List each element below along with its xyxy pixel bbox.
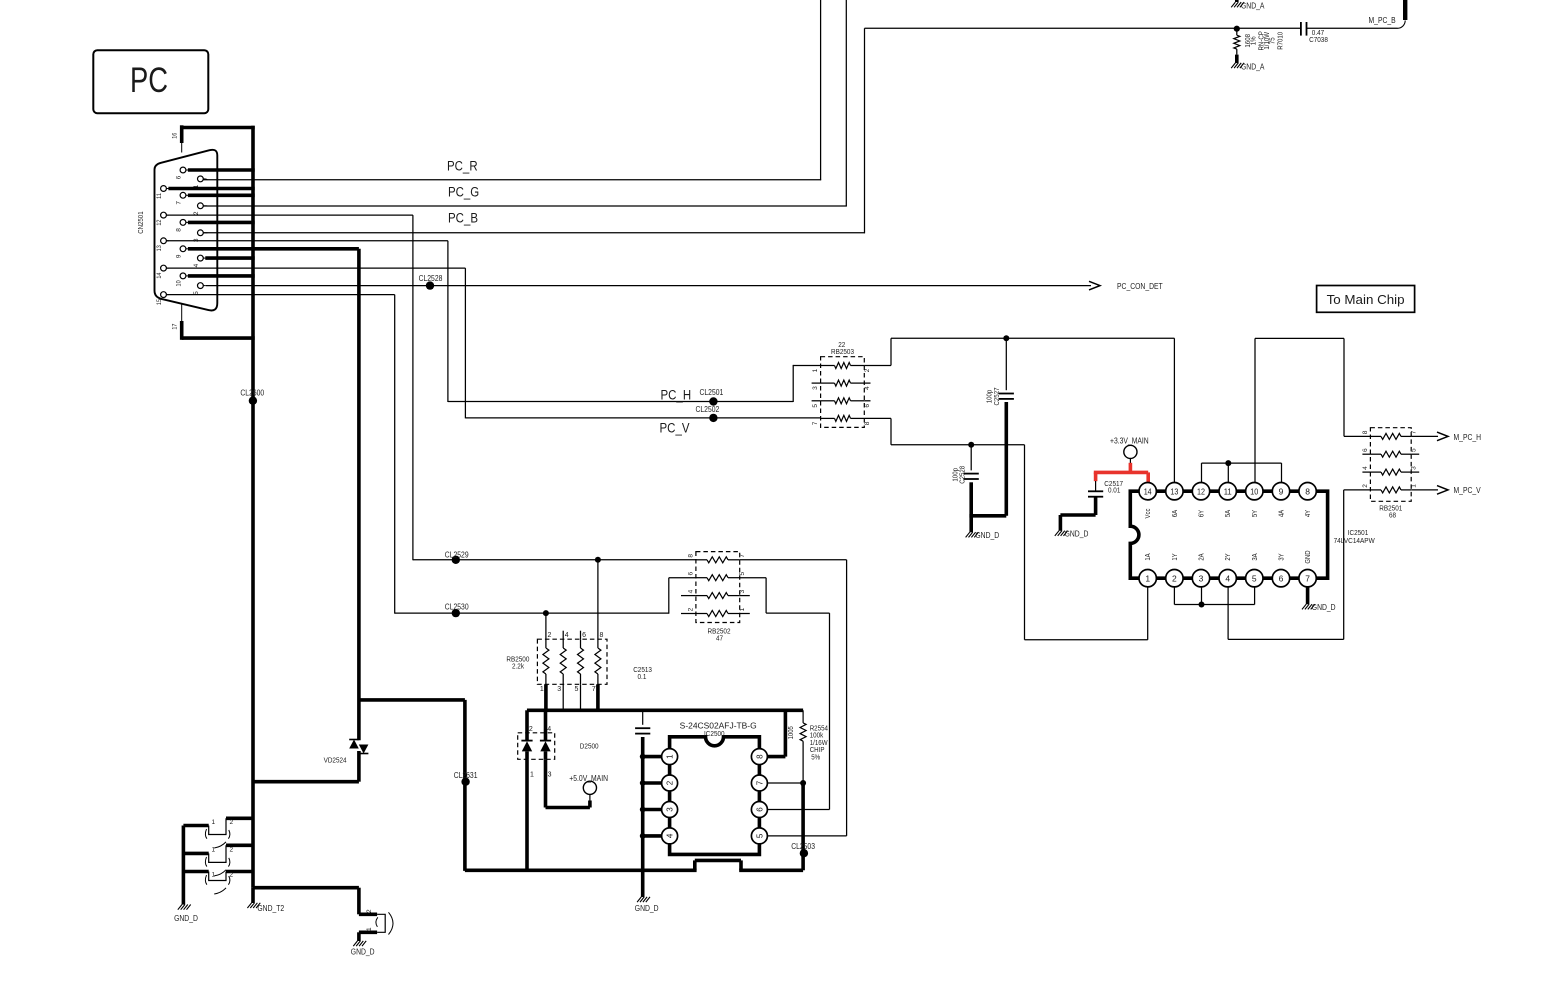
svg-text:14: 14: [156, 272, 163, 278]
svg-text:3: 3: [739, 589, 746, 593]
svg-text:11: 11: [156, 193, 163, 199]
svg-text:4Y: 4Y: [1305, 510, 1312, 518]
node CL2530: [445, 602, 469, 617]
svg-text:CL2503: CL2503: [791, 842, 815, 851]
pin 12 of CN2501: [156, 212, 169, 225]
node junction C2528: [968, 442, 974, 448]
svg-text:CL2530: CL2530: [445, 602, 469, 611]
svg-text:7: 7: [755, 780, 764, 785]
wire C2527 to ground: [969, 402, 1006, 516]
svg-text:4: 4: [665, 833, 674, 838]
svg-text:5: 5: [739, 572, 746, 576]
wire IC2500 pin7 to R2554: [767, 780, 806, 786]
svg-text:GND_D: GND_D: [1312, 603, 1336, 612]
wire D2500 pin1 to ground bus: [525, 759, 529, 870]
ground GND_D below C2517: [1055, 530, 1089, 539]
svg-text:11: 11: [1224, 486, 1232, 496]
node CL2502: [696, 405, 720, 422]
resistor network RB2501: [1362, 428, 1419, 520]
svg-text:CL2529: CL2529: [445, 550, 469, 559]
capacitor C2517: [1088, 479, 1123, 497]
svg-text:74LVC14APW: 74LVC14APW: [1334, 536, 1376, 545]
svg-text:C2528: C2528: [958, 466, 967, 484]
pin 5 of CN2501: [193, 283, 206, 295]
svg-text:4A: 4A: [1279, 510, 1286, 518]
wire pin3 tail: [206, 232, 208, 234]
svg-text:15: 15: [156, 299, 163, 305]
node CL2528: [419, 274, 443, 290]
wire RB2503 pin8 to PC_V path: [864, 418, 1024, 444]
svg-text:2: 2: [230, 847, 234, 854]
svg-text:5: 5: [755, 833, 764, 838]
label IC2501: [1334, 528, 1376, 545]
svg-text:4: 4: [687, 589, 694, 593]
svg-text:2: 2: [864, 368, 871, 372]
svg-text:1: 1: [212, 847, 216, 854]
svg-text:7: 7: [1305, 573, 1310, 583]
node CL2631: [454, 771, 478, 786]
ground GND_D at IC2501 pin7: [1302, 603, 1336, 612]
link FB2 to ground: [183, 845, 253, 876]
svg-text:2.2k: 2.2k: [512, 662, 524, 671]
wire pin15 to CL2530 line: [166, 295, 394, 614]
wire pin9 drop: [357, 249, 361, 740]
svg-text:6A: 6A: [1172, 510, 1179, 518]
svg-text:2: 2: [665, 780, 674, 785]
node PC_B label: [448, 211, 478, 226]
svg-text:To Main Chip: To Main Chip: [1327, 292, 1405, 307]
diode D2500: [518, 710, 599, 778]
svg-text:VD2524: VD2524: [324, 756, 347, 765]
resistor network RB2502: [681, 552, 750, 643]
svg-text:3: 3: [193, 238, 200, 242]
pin 3 of CN2501: [193, 230, 206, 242]
svg-text:2Y: 2Y: [1225, 553, 1232, 561]
svg-text:GND_T2: GND_T2: [257, 904, 284, 913]
wire left ground rail: [182, 826, 186, 905]
wire CL2529 line: [413, 559, 696, 561]
wire pin5 PC_CON_DET: [206, 285, 1091, 287]
wire row1 left stub RB2501: [1344, 435, 1370, 437]
svg-text:8: 8: [687, 554, 694, 558]
pin 2 of CN2501: [193, 203, 206, 215]
svg-text:12: 12: [156, 219, 163, 225]
ground GND_D left rail: [174, 905, 198, 923]
node M_PC_B label: [1369, 16, 1396, 25]
ground GND_D below IC2500: [635, 897, 659, 913]
svg-text:GND: GND: [1305, 550, 1312, 563]
svg-text:3: 3: [557, 686, 561, 693]
diode VD2524: [324, 740, 369, 765]
wire PC_H riser to RB2503: [793, 365, 820, 402]
svg-text:4: 4: [565, 632, 569, 639]
svg-text:GND_D: GND_D: [351, 947, 375, 956]
svg-text:CL2631: CL2631: [454, 771, 478, 780]
svg-text:6: 6: [1362, 448, 1369, 452]
wire pin9 to CL2631: [359, 700, 465, 871]
svg-text:GND_D: GND_D: [635, 904, 659, 913]
wire IC2501 pin13 riser: [1173, 338, 1175, 482]
pin 17 of CN2501: [171, 304, 181, 340]
svg-text:2: 2: [529, 726, 533, 733]
svg-text:CL2600: CL2600: [240, 389, 264, 398]
node CL2503: [791, 842, 815, 858]
pin names of IC2501: [1145, 508, 1312, 563]
svg-text:6: 6: [582, 632, 586, 639]
svg-text:GND_A: GND_A: [1241, 2, 1265, 11]
resistor R7010: [1234, 29, 1240, 63]
svg-text:12: 12: [1197, 486, 1205, 496]
svg-text:68: 68: [1389, 510, 1396, 519]
resistor R2554: [788, 710, 828, 783]
wire IC2501 pin4 to RB2501: [1228, 490, 1344, 640]
capacitor C2528: [950, 445, 978, 484]
svg-text:+3.3V_MAIN: +3.3V_MAIN: [1110, 436, 1149, 445]
wire row4 left stub RB2501: [1344, 489, 1371, 491]
svg-text:1: 1: [212, 872, 216, 879]
svg-text:D2500: D2500: [580, 741, 599, 750]
ground GND_D below C2528: [966, 531, 1000, 540]
svg-text:PC_V: PC_V: [660, 421, 690, 436]
svg-text:1: 1: [540, 686, 544, 693]
svg-text:3: 3: [1411, 466, 1418, 470]
node CL2600: [240, 389, 264, 405]
pins 1-7 of IC2501: [1139, 570, 1316, 587]
connector CN2501 shell: [155, 150, 218, 311]
svg-text:CL2528: CL2528: [419, 274, 443, 283]
svg-text:17: 17: [171, 323, 178, 329]
svg-text:0.01: 0.01: [1108, 485, 1120, 494]
wire pin12 to CL2529 line: [166, 215, 413, 560]
svg-text:2A: 2A: [1199, 553, 1206, 561]
svg-text:PC_G: PC_G: [448, 185, 479, 200]
svg-text:1005: 1005: [788, 726, 795, 739]
svg-text:GND_D: GND_D: [975, 531, 999, 540]
svg-text:6: 6: [687, 572, 694, 576]
svg-text:8: 8: [755, 754, 764, 759]
wire IC2501 pin7 ground: [1306, 587, 1310, 604]
svg-text:1Y: 1Y: [1172, 553, 1179, 561]
wire PC_R net riser: [203, 0, 821, 180]
pin 16 of CN2501: [171, 125, 181, 152]
svg-text:M_PC_V: M_PC_V: [1454, 486, 1482, 495]
svg-text:7: 7: [592, 686, 596, 693]
svg-text:Vcc: Vcc: [1145, 508, 1152, 518]
capacitor C2513: [633, 665, 652, 734]
wire shield bus: [251, 126, 255, 888]
svg-text:2: 2: [230, 872, 234, 879]
svg-text:5: 5: [1252, 573, 1257, 583]
svg-text:GND_D: GND_D: [1065, 530, 1089, 539]
svg-text:3: 3: [548, 772, 552, 779]
svg-text:1: 1: [1145, 573, 1150, 583]
svg-text:1: 1: [1411, 484, 1418, 488]
wires IC2500 pins1-4 to ground: [640, 754, 662, 839]
svg-text:5: 5: [575, 686, 579, 693]
wire pin16 to shield bus: [182, 126, 255, 130]
svg-text:5Y: 5Y: [1252, 510, 1259, 518]
svg-text:3Y: 3Y: [1279, 553, 1286, 561]
svg-text:7: 7: [1411, 430, 1418, 434]
svg-text:4: 4: [1362, 466, 1369, 470]
svg-text:8: 8: [1362, 430, 1369, 434]
pin 6 of CN2501: [175, 167, 254, 179]
op-amp U1 IC2501 body: [1130, 491, 1327, 578]
wire pin13 to PC_H: [166, 241, 448, 402]
svg-text:GND_D: GND_D: [174, 914, 198, 923]
capacitor C7038: [1301, 22, 1328, 44]
svg-text:2: 2: [230, 819, 234, 826]
node PC_CON_DET arrow: [1089, 281, 1163, 291]
svg-text:CL2502: CL2502: [696, 405, 720, 414]
svg-text:3: 3: [665, 807, 674, 812]
wire VD2524 lower: [253, 751, 359, 782]
svg-text:4: 4: [1225, 573, 1230, 583]
svg-text:M_PC_H: M_PC_H: [1454, 433, 1482, 442]
pin 15 of CN2501: [156, 292, 169, 305]
svg-text:R7010: R7010: [1276, 32, 1285, 50]
svg-text:7: 7: [175, 201, 182, 205]
svg-text:2: 2: [1362, 484, 1369, 488]
svg-text:9: 9: [175, 254, 182, 258]
svg-text:3A: 3A: [1252, 553, 1259, 561]
svg-text:C7038: C7038: [1309, 35, 1328, 44]
svg-text:4: 4: [193, 263, 200, 267]
node CL2529: [445, 550, 469, 564]
wire PC_V to IC pin1: [1025, 445, 1148, 640]
wire RB2500 pin7 to 5V bus: [596, 684, 600, 710]
wire IC2501 pin12-11-9 bracket: [1202, 460, 1282, 482]
ground GND_A below R7010: [1231, 63, 1265, 72]
svg-text:14: 14: [1144, 486, 1152, 496]
wire C2513 to ground: [641, 737, 645, 897]
svg-text:6: 6: [175, 175, 182, 179]
node junction at R7010: [1234, 26, 1240, 32]
svg-text:2: 2: [548, 632, 552, 639]
wire RB2500 pin3 to 5V bus: [562, 684, 564, 710]
svg-text:2: 2: [366, 909, 373, 913]
pins 5-8 of IC2500: [751, 749, 767, 844]
link FB1 to ground: [183, 818, 253, 848]
pin 14 of CN2501: [156, 265, 169, 278]
wire D2500 pin3 to +5V_MAIN: [546, 759, 590, 807]
svg-text:8: 8: [600, 632, 604, 639]
node PC_G label: [448, 185, 479, 200]
svg-text:7: 7: [812, 421, 819, 425]
wire pin2 tail: [206, 205, 208, 207]
node M_PC_V arrow: [1411, 486, 1481, 496]
svg-text:2: 2: [687, 607, 694, 611]
wire RB2502 pin7 to IC2500 pin5: [740, 560, 847, 836]
node M_PC_H arrow: [1411, 432, 1481, 442]
svg-text:6: 6: [755, 807, 764, 812]
svg-text:CL2501: CL2501: [700, 388, 724, 397]
svg-text:16: 16: [171, 132, 178, 138]
wire IC2501 pin10 to RB2501: [1255, 338, 1344, 482]
svg-text:PC: PC: [130, 61, 168, 100]
wire +3.3V red net: [1094, 463, 1148, 483]
svg-text:8: 8: [1305, 486, 1310, 496]
node PC_R label: [447, 159, 478, 174]
svg-text:10: 10: [1250, 486, 1258, 496]
wire 5V bus: [527, 709, 803, 713]
node junction RB2500 pin2: [543, 610, 549, 616]
wire RB2500 pin4 stub: [562, 631, 564, 640]
svg-text:2: 2: [1172, 573, 1177, 583]
wire RB2500 pin8 riser: [597, 560, 599, 639]
wire IC2501 pin2-3-5 bracket: [1174, 587, 1254, 608]
svg-text:8: 8: [175, 228, 182, 232]
power +5.0V_MAIN: [569, 774, 608, 801]
svg-text:M_PC_B: M_PC_B: [1369, 16, 1396, 25]
svg-text:+5.0V_MAIN: +5.0V_MAIN: [569, 774, 608, 783]
pin 10 of CN2501: [175, 273, 254, 286]
pins 1-4 of IC2500: [662, 749, 678, 844]
wire R2554 to ground bus: [801, 783, 805, 870]
pin 7 of CN2501: [175, 192, 254, 204]
svg-text:5A: 5A: [1225, 510, 1232, 518]
link FB4 to ground: [253, 888, 393, 941]
capacitor C2527: [985, 338, 1014, 405]
svg-text:1: 1: [530, 772, 534, 779]
svg-text:PC_H: PC_H: [661, 388, 692, 403]
wire PC_V: [465, 418, 820, 436]
wire ground bus: [465, 860, 803, 870]
link FB3 to ground: [183, 872, 253, 895]
connector CN2501 label: [136, 211, 145, 233]
svg-text:PC_CON_DET: PC_CON_DET: [1117, 282, 1163, 291]
svg-text:0.1: 0.1: [638, 672, 647, 681]
wire pin14 to PC_V: [166, 268, 465, 418]
wire pin17 to shield bus: [182, 336, 255, 340]
svg-text:3: 3: [812, 386, 819, 390]
svg-text:7: 7: [739, 554, 746, 558]
svg-text:6: 6: [1279, 573, 1284, 583]
svg-text:47: 47: [716, 633, 723, 642]
svg-text:IC2500: IC2500: [704, 729, 725, 738]
svg-text:8: 8: [864, 421, 871, 425]
node CL2501: [700, 388, 724, 405]
wire CL2530 line: [395, 578, 696, 614]
ground GND_A top: [1231, 0, 1265, 11]
svg-text:5: 5: [812, 404, 819, 408]
wire RB2500 pin5 to 5V bus: [580, 684, 582, 710]
block label PC: [93, 50, 208, 113]
node junction RB2500 pin8: [595, 557, 601, 563]
wire C2528 to ground: [969, 482, 973, 532]
resistor network RB2500: [506, 632, 607, 693]
wire pin1 tail: [206, 178, 208, 181]
svg-text:CN2501: CN2501: [136, 211, 145, 233]
wire IC2500 pin8 to 5V bus: [767, 710, 785, 756]
svg-text:1: 1: [665, 754, 674, 759]
wire C2517 to ground: [1060, 497, 1095, 531]
svg-text:1: 1: [739, 607, 746, 611]
wire M_PC_B to connector: [1307, 0, 1406, 28]
svg-text:1: 1: [366, 927, 373, 931]
wire PC_B net: [203, 28, 1300, 233]
svg-text:13: 13: [156, 245, 163, 251]
svg-text:4: 4: [547, 726, 551, 733]
pin 4 of CN2501: [193, 255, 255, 267]
memory IC2500 body: [670, 737, 760, 855]
label IC2500: [680, 721, 757, 738]
wire PC_H: [448, 388, 793, 403]
svg-text:4: 4: [864, 386, 871, 390]
svg-text:PC_R: PC_R: [447, 159, 478, 174]
svg-text:RB2503: RB2503: [831, 347, 854, 356]
label R7010 values: [1243, 31, 1284, 51]
svg-text:6Y: 6Y: [1199, 510, 1206, 518]
svg-text:5: 5: [1411, 448, 1418, 452]
wire RB2503 pin2 to IC path: [864, 338, 1174, 365]
svg-text:1: 1: [212, 819, 216, 826]
svg-text:9: 9: [1279, 486, 1284, 496]
resistor network RB2503: [812, 340, 872, 427]
svg-text:13: 13: [1170, 486, 1178, 496]
ground GND_T2: [247, 888, 284, 913]
pin 1 of CN2501: [193, 176, 206, 188]
pin 13 of CN2501: [156, 238, 169, 251]
svg-text:C2527: C2527: [992, 388, 1001, 406]
pin 9 of CN2501: [175, 246, 359, 258]
block To Main Chip: [1317, 286, 1415, 313]
wire RB2500 pin6 stub: [580, 631, 582, 640]
pins 8-14 of IC2501: [1139, 483, 1316, 500]
svg-text:10: 10: [175, 280, 182, 286]
svg-text:GND_A: GND_A: [1241, 63, 1265, 72]
svg-text:6: 6: [864, 404, 871, 408]
svg-text:1A: 1A: [1145, 553, 1152, 561]
ground GND_D bottom center: [351, 941, 375, 956]
wire RB2500 pin2 riser: [545, 613, 547, 639]
svg-text:1: 1: [812, 368, 819, 372]
svg-text:5%: 5%: [811, 753, 820, 762]
power +3.3V_MAIN: [1110, 436, 1149, 463]
wire RB2502 pin5 to IC2500 pin6: [740, 578, 830, 810]
pin 11 of CN2501: [156, 186, 255, 199]
svg-text:3: 3: [1199, 573, 1204, 583]
svg-text:PC_B: PC_B: [448, 211, 478, 226]
pin 8 of CN2501: [175, 220, 254, 232]
node junction C2527: [1003, 335, 1009, 341]
wire RB2500 pin1 to 5V bus: [544, 684, 548, 710]
wire PC_G net riser: [203, 0, 847, 206]
